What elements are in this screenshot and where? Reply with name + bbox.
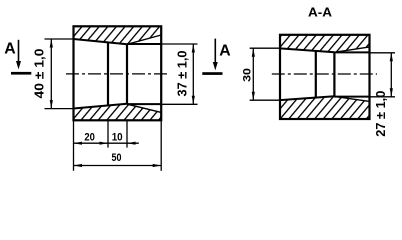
bore bottom slant A-A	[280, 96, 334, 100]
bore bottom horizontal A-A	[334, 96, 369, 98]
hatch bottom band	[74, 104, 162, 120]
dim 20/10 line	[74, 142, 139, 144]
top wedge line	[127, 35, 161, 44]
dim 30 line with arrows	[252, 48, 254, 100]
svg-text:A: A	[4, 41, 15, 58]
inner vertical V1a	[315, 51, 317, 98]
dim 30: extension lines	[250, 47, 280, 49]
dim 50 line	[74, 165, 162, 167]
dim 37 line with arrows	[192, 44, 194, 104]
svg-text:37 ± 1,0: 37 ± 1,0	[176, 50, 190, 96]
bottom extension lines of left view	[73, 120, 75, 171]
dim 27 line with arrows	[390, 53, 392, 97]
svg-text:50: 50	[112, 152, 122, 164]
dim 40 line with arrows	[50, 39, 52, 109]
bore bottom slant	[74, 104, 128, 109]
svg-text:10: 10	[112, 132, 123, 144]
dim 40 left: extension lines	[45, 38, 74, 40]
svg-text:A-A: A-A	[308, 4, 333, 19]
svg-text:A: A	[219, 42, 230, 59]
centerline A-A	[272, 73, 377, 75]
bore top horizontal A-A	[334, 51, 369, 53]
svg-text:20: 20	[84, 132, 95, 144]
section arrow A left	[4, 40, 31, 75]
hatch bottom band A-A	[280, 96, 370, 119]
bore bottom horizontal	[127, 103, 161, 105]
centerline left view	[66, 73, 168, 75]
bottom wedge line A-A	[334, 96, 369, 101]
svg-text:27 ± 1,0: 27 ± 1,0	[374, 91, 388, 137]
outer outline	[74, 26, 162, 120]
dim 37 right: extension lines	[161, 43, 197, 45]
inner vertical V2	[126, 44, 128, 104]
bore top horizontal	[127, 43, 161, 45]
top wedge line A-A	[334, 47, 369, 52]
section arrow A right	[202, 39, 230, 75]
svg-text:40 ± 1,0: 40 ± 1,0	[33, 48, 47, 98]
hatch top band A-A	[280, 35, 370, 53]
bore top slant	[74, 39, 128, 44]
inner vertical V2a	[333, 52, 335, 96]
dim 27: extension lines	[370, 52, 396, 54]
bore top slant A-A	[280, 48, 334, 52]
inner vertical V1	[107, 43, 109, 106]
outer outline A-A	[280, 35, 370, 119]
svg-text:30: 30	[242, 68, 254, 82]
hatch top band	[74, 26, 162, 44]
bottom wedge line	[127, 104, 161, 112]
